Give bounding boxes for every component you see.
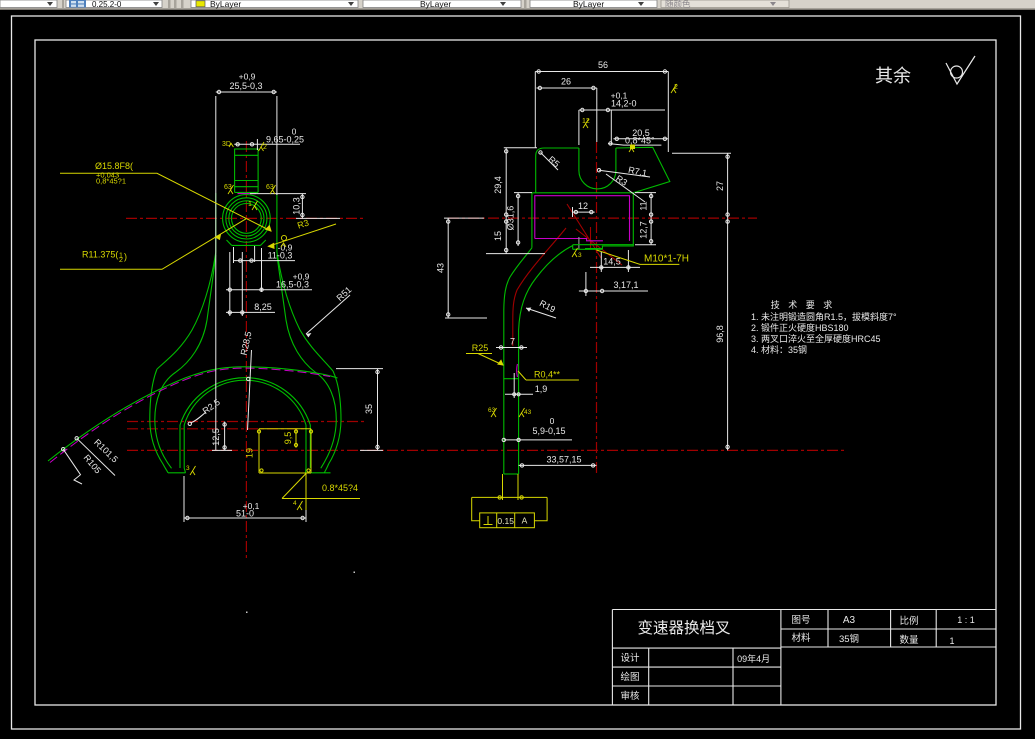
svg-text:0.25.2-0: 0.25.2-0 [92, 0, 122, 9]
svg-text:12: 12 [582, 118, 590, 125]
svg-text:43: 43 [436, 263, 446, 273]
toolbar combo: color ByLayer [191, 0, 358, 8]
dimension 9,65-0,25 [234, 139, 300, 150]
neck flank right inner [277, 255, 315, 372]
dimension 25,5 -0,3/+0,9 top [216, 90, 277, 450]
M10 hole axis diagonal [567, 204, 601, 258]
jaw inner opening arc inner [184, 380, 306, 425]
top block outline [536, 147, 670, 193]
svg-text:7: 7 [510, 337, 515, 347]
hidden line keyway (magenta) [238, 193, 257, 195]
large web curve R101.5 (magenta) [50, 368, 330, 462]
svg-text:26: 26 [561, 77, 571, 87]
radius label R3 hub (yellow) [268, 224, 336, 248]
jaw inner opening arc outer [180, 378, 310, 425]
dimension 43 [444, 218, 487, 318]
surface marks on arm sides (yellow) [488, 407, 532, 417]
svg-text:2: 2 [263, 144, 267, 151]
svg-text:56: 56 [598, 60, 608, 70]
svg-text:19: 19 [245, 448, 255, 458]
svg-text:): ) [124, 252, 127, 262]
svg-text:27: 27 [715, 181, 725, 191]
centerline jaw middle [127, 428, 306, 430]
dimension 20,5 [613, 137, 668, 140]
radius label R28,5 [248, 350, 252, 430]
svg-text:1: 1 [248, 201, 252, 208]
svg-text:A3: A3 [843, 615, 856, 626]
dimension 10,3 [250, 194, 340, 219]
centerline vertical, bore axis [245, 141, 247, 560]
svg-text:0,8*45?1: 0,8*45?1 [96, 177, 126, 186]
toolbar combo: plot style (disabled) [661, 0, 789, 8]
svg-text:随颜色: 随颜色 [665, 0, 691, 9]
centerline jaw upper [127, 421, 366, 423]
svg-text:其余: 其余 [875, 66, 911, 86]
svg-text:1. 未注明锻造圆角R1.5，拔模斜度7°: 1. 未注明锻造圆角R1.5，拔模斜度7° [751, 311, 897, 322]
jaw outer rim right inner line [315, 372, 336, 468]
arm mid tick [504, 378, 519, 380]
radius label R2,5 [191, 412, 207, 423]
radius label R25 (yellow) [466, 354, 503, 366]
stray dot 1 [354, 572, 356, 574]
svg-text:2: 2 [119, 257, 123, 264]
svg-text:4. 材料：35钢: 4. 材料：35钢 [751, 344, 807, 355]
surface mark inside bore (yellow) [248, 201, 258, 210]
right foot bottom [306, 468, 331, 473]
thread relief tick (gray) [578, 237, 580, 249]
surface finish symbol top right [946, 56, 975, 84]
svg-text:3. 两叉口淬火至全厚硬度HRC45: 3. 两叉口淬火至全厚硬度HRC45 [751, 333, 881, 344]
svg-text:12,7: 12,7 [638, 221, 648, 239]
svg-text:2: 2 [674, 84, 678, 91]
centerline horizontal right view [448, 217, 757, 219]
jaw outer rim right [324, 371, 341, 473]
neck flank left inner [176, 255, 216, 372]
dimension 27 [672, 153, 731, 218]
svg-text:R25: R25 [472, 343, 489, 353]
arm outer edge [504, 248, 532, 474]
dimension 14,5 [590, 250, 640, 272]
svg-text:图号: 图号 [791, 615, 810, 626]
jaw right inner wall [306, 425, 310, 468]
dimension 11-0,3 [234, 246, 296, 263]
toolbar combo: layer control with icon [66, 0, 162, 8]
datum target frame (yellow) [472, 497, 547, 527]
dimension 35 [336, 369, 383, 451]
jaw outer rim left [150, 369, 168, 473]
title block grid [612, 610, 996, 706]
dimension 14,2-0/+0,1 [579, 108, 665, 145]
svg-text:Ø15.8F8(: Ø15.8F8( [95, 161, 133, 171]
svg-text:3: 3 [578, 252, 582, 259]
svg-text:09年4月: 09年4月 [737, 653, 770, 664]
radius label R101,5 [77, 438, 115, 475]
svg-text:0.8*45?4: 0.8*45?4 [322, 483, 358, 493]
surface marks at hub sides 63 (yellow) [224, 184, 276, 194]
middle block outline [532, 193, 633, 250]
svg-text:4: 4 [293, 500, 297, 507]
short red axis at thread [590, 227, 592, 249]
title block labels [620, 615, 974, 702]
fork pad hidden edge (magenta short) [516, 364, 519, 377]
second hole axis diagonal [576, 229, 622, 265]
bore leader Ø15.8F8 (yellow) [60, 173, 271, 231]
svg-text:11: 11 [638, 201, 648, 210]
stray dot 2 [246, 612, 248, 614]
svg-text:9,65-0,25: 9,65-0,25 [266, 135, 304, 145]
yellow glyph right of circle [281, 235, 287, 247]
svg-text:ByLayer: ByLayer [210, 0, 241, 9]
svg-text:M10*1-7H: M10*1-7H [644, 254, 689, 265]
chamfer note 0,8*45 top (white) [608, 142, 661, 145]
dimension 5,9-0,15 [502, 438, 572, 441]
svg-text:12: 12 [578, 201, 588, 211]
svg-text:9,5: 9,5 [283, 432, 293, 445]
surface mark under ledge (yellow) [572, 248, 582, 259]
svg-text:12,5: 12,5 [211, 428, 221, 446]
surface marks at boss top (yellow) [222, 141, 267, 151]
svg-text:R0,4**: R0,4** [534, 370, 561, 380]
jaw outer rim left inner line [155, 372, 176, 468]
jaw left inner wall [180, 425, 184, 468]
surface mark top right block (yellow) [671, 84, 678, 93]
dimension Ø31,6 [514, 193, 532, 246]
bore leader R11.375 (yellow) [60, 219, 246, 269]
hub bottom chord and chamfer cuts [227, 240, 266, 245]
dimension 11 [635, 193, 656, 219]
dimension 15 [486, 218, 545, 254]
svg-text:51-0: 51-0 [236, 509, 254, 519]
radius label R51 [306, 295, 350, 334]
svg-text:Ø31,6: Ø31,6 [506, 206, 516, 231]
svg-text:3: 3 [186, 465, 190, 472]
svg-text:比例: 比例 [899, 615, 918, 627]
svg-text:43: 43 [524, 409, 532, 416]
dimension 96,8 [726, 218, 729, 450]
svg-text:ByLayer: ByLayer [573, 0, 604, 9]
svg-text:16,5-0,3: 16,5-0,3 [276, 280, 309, 290]
dimension 33,5-,15 [519, 464, 597, 467]
svg-text:5,9-0,15: 5,9-0,15 [532, 426, 565, 436]
arm bottom close [504, 473, 519, 475]
thread note M10*1-7H (yellow) [597, 250, 680, 264]
boss outline [235, 149, 259, 192]
svg-text:2. 锻件正火硬度HBS180: 2. 锻件正火硬度HBS180 [751, 322, 849, 333]
surface mark at chamfer (yellow) [629, 145, 635, 153]
toolbar combo: lineweight ByLayer [530, 0, 657, 8]
hub silhouette sides [216, 193, 277, 252]
large web curve R105 (green) [48, 367, 338, 461]
svg-text:0,8*45°: 0,8*45° [625, 136, 655, 146]
dimension 16,5-0,3 [226, 248, 312, 316]
svg-text:0.15: 0.15 [497, 516, 514, 526]
svg-text:35钢: 35钢 [839, 633, 859, 645]
svg-text:1 : 1: 1 : 1 [957, 615, 975, 625]
surface mark left of notch (yellow) [582, 118, 590, 128]
svg-text:材料: 材料 [791, 632, 811, 644]
svg-text:14,2-0: 14,2-0 [611, 99, 637, 109]
centerline long horizontal shared [127, 449, 845, 451]
svg-text:96,8: 96,8 [715, 325, 725, 343]
svg-text:R11.375(: R11.375( [82, 250, 118, 260]
centerline horizontal through bore [126, 217, 366, 219]
centerline vertical right view [596, 142, 598, 474]
ledge under block [573, 245, 634, 250]
svg-text:8,25: 8,25 [254, 302, 272, 312]
svg-text:数量: 数量 [899, 634, 919, 646]
svg-text:ByLayer: ByLayer [420, 0, 451, 9]
svg-text:变速器换档叉: 变速器换档叉 [637, 619, 730, 637]
svg-text:10,3: 10,3 [292, 197, 302, 215]
svg-text:35: 35 [364, 404, 374, 414]
surface mark jaw foot (yellow) [186, 465, 196, 475]
dimension 12,5 jaw [212, 422, 232, 451]
svg-text:0: 0 [550, 416, 555, 426]
dimension 7 arm [496, 346, 527, 349]
dimension 12 [573, 207, 595, 217]
arm inner edge [519, 246, 573, 475]
bore rectangle (magenta) [535, 196, 630, 241]
svg-text:1: 1 [949, 636, 954, 646]
radius label R0,4 (yellow) [518, 371, 579, 380]
dimension 26 [537, 86, 597, 142]
dimension 1,9 [505, 373, 533, 398]
dimension 3,1 7,1 [579, 272, 648, 296]
svg-text:A: A [522, 516, 528, 526]
hub circles [223, 195, 271, 243]
toolbar combo: color control [0, 0, 57, 8]
svg-text:15: 15 [493, 231, 503, 241]
svg-text:+0,9: +0,9 [239, 72, 256, 82]
svg-text:绘图: 绘图 [620, 671, 639, 683]
left foot bottom [168, 468, 186, 473]
svg-text:3D: 3D [222, 141, 231, 148]
dimension 56 [535, 70, 668, 152]
neck flank right outer [277, 252, 333, 371]
svg-text:11-0,3: 11-0,3 [268, 251, 293, 261]
svg-text:14,5: 14,5 [603, 257, 621, 267]
svg-text:29,4: 29,4 [493, 176, 503, 194]
surface mark near 51 dim (yellow) [293, 500, 303, 510]
arm centerline (red) [513, 228, 566, 346]
radius label R5 [541, 153, 559, 171]
svg-text:审核: 审核 [620, 690, 640, 702]
dimension 29,4 [504, 148, 537, 218]
radius label R105 [63, 449, 82, 484]
dimension 8,25 [226, 252, 275, 316]
dimension 12,7 [635, 218, 656, 245]
arm extension to datum (yellow) [498, 474, 523, 500]
svg-text:33,57,15: 33,57,15 [546, 455, 581, 465]
toolbar combo: linetype ByLayer [363, 0, 521, 8]
chamfer leader 0.8*45 jaw (yellow) [282, 473, 360, 510]
svg-text:设计: 设计 [620, 652, 640, 664]
radius label R7,1 [599, 170, 650, 177]
radius label R3 right view [606, 174, 645, 202]
jaw width dims 19 / 9,5 (yellow) [257, 429, 312, 473]
radius label R19 [526, 308, 556, 318]
svg-text:技 术 要 求: 技 术 要 求 [771, 299, 836, 310]
neck flank left outer [157, 252, 216, 369]
svg-text:25,5-0,3: 25,5-0,3 [229, 81, 262, 91]
dimension 51-0/+0,1 [184, 476, 306, 522]
svg-text:63: 63 [488, 407, 496, 414]
technical requirements notes [751, 299, 897, 355]
svg-text:3,17,1: 3,17,1 [613, 280, 638, 290]
svg-text:1,9: 1,9 [535, 384, 548, 394]
toolbar strip [0, 0, 1035, 10]
